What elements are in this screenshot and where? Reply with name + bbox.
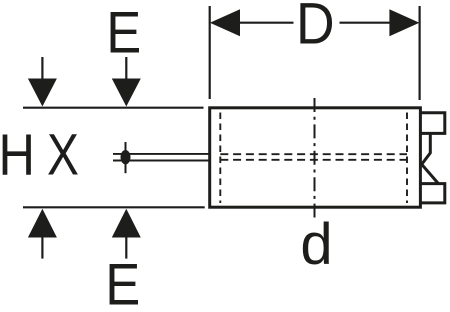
hidden pipe dashed line lower <box>220 159 407 161</box>
svg-text:d: d <box>300 212 332 277</box>
spigot top tab <box>420 113 444 134</box>
arrow down right (E) <box>112 57 141 107</box>
arrow up right (E) <box>112 209 141 259</box>
extension line E top <box>23 107 204 109</box>
hidden pipe dashed line upper <box>220 153 407 155</box>
svg-text:E: E <box>105 252 140 312</box>
dimension D line right segment <box>340 22 394 24</box>
centerline dash-dot vertical <box>314 98 316 218</box>
dimension D extension line left <box>209 6 211 99</box>
marker vertical line <box>125 142 127 173</box>
svg-text:H: H <box>0 123 35 188</box>
pipe wall line lower <box>113 160 209 162</box>
svg-text:D: D <box>296 0 335 56</box>
arrow down left <box>28 57 57 107</box>
hidden edge dashed left <box>219 113 221 204</box>
dimension D arrowhead right <box>389 9 419 36</box>
svg-text:E: E <box>106 0 141 65</box>
pipe wall line upper <box>113 153 209 155</box>
marker ball <box>121 150 131 164</box>
coupling body outline <box>210 108 421 207</box>
hidden edge dashed right <box>406 113 408 204</box>
spigot bottom tab <box>420 184 444 203</box>
dimension D arrowhead left <box>210 9 240 36</box>
extension line E bottom <box>23 206 205 208</box>
spigot groove profile <box>422 133 439 183</box>
arrow up left <box>28 209 57 259</box>
dimension D line left segment <box>236 22 294 24</box>
dimension D extension line right <box>419 6 421 100</box>
svg-text:X: X <box>47 123 79 188</box>
